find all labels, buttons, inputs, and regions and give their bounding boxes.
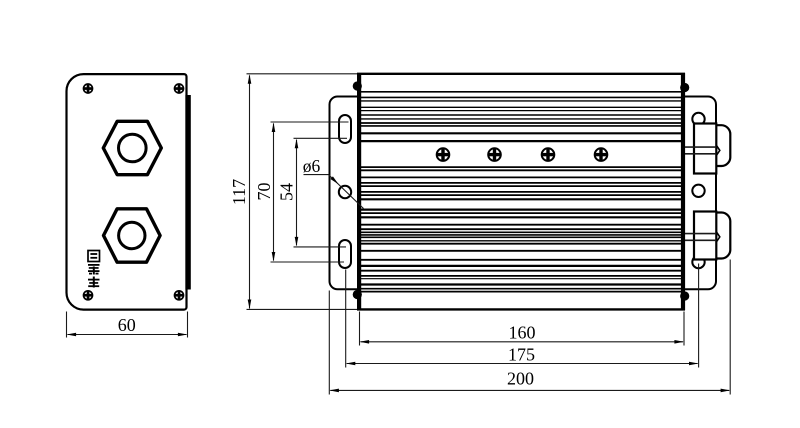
svg-text:175: 175 bbox=[508, 345, 535, 365]
main body top edge bbox=[357, 73, 685, 75]
left flange slot bottom bbox=[339, 240, 351, 268]
body corner screw dot top-left bbox=[353, 81, 362, 90]
dimension 175 line bbox=[347, 363, 698, 365]
body corner screw dot bottom-right bbox=[680, 291, 689, 300]
heatsink fins bbox=[359, 92, 683, 292]
dimension 117 extension lines bbox=[247, 73, 358, 75]
main body bottom edge bbox=[357, 308, 685, 310]
dimension 70 extension lines bbox=[271, 121, 349, 123]
diameter 6 leader underline bbox=[304, 174, 329, 176]
body screw 3 bbox=[541, 148, 554, 161]
dimension 60 extension lines bbox=[66, 312, 68, 338]
svg-text:54: 54 bbox=[276, 183, 296, 201]
left view corner screw top-right bbox=[174, 84, 183, 93]
right mounting flange bbox=[683, 97, 716, 290]
left flange slot top bbox=[339, 115, 351, 143]
cable gland side view top bbox=[683, 124, 730, 174]
body corner screw dot top-right bbox=[680, 83, 689, 92]
dimension 54 line bbox=[296, 140, 298, 246]
left mounting flange bbox=[330, 97, 360, 290]
diameter 6 leader line bbox=[329, 175, 364, 209]
dimension 117 line bbox=[249, 76, 251, 309]
cable gland side view bottom bbox=[683, 212, 730, 260]
body screw 2 bbox=[488, 148, 501, 161]
right flange hole middle bbox=[692, 185, 704, 197]
body screw 1 bbox=[436, 148, 449, 161]
left view corner screw bottom-right bbox=[174, 291, 183, 300]
body right edge band bbox=[681, 73, 685, 310]
left view fin edge strip bbox=[185, 95, 190, 290]
svg-text:ø6: ø6 bbox=[303, 156, 321, 176]
brand text glyphs bbox=[88, 251, 100, 288]
right flange hole bottom bbox=[692, 256, 704, 268]
body left edge band bbox=[357, 73, 361, 310]
right flange hole top bbox=[692, 113, 704, 125]
left view corner screw bottom-left bbox=[83, 291, 92, 300]
dimension 160 extension lines bbox=[359, 312, 361, 346]
dimension 54 extension lines bbox=[294, 137, 348, 139]
dimension 200 line bbox=[330, 389, 729, 391]
dimension 200 extension lines bbox=[328, 291, 330, 395]
svg-text:70: 70 bbox=[254, 183, 274, 201]
svg-text:160: 160 bbox=[509, 323, 536, 343]
left view corner screw top-left bbox=[83, 84, 92, 93]
dimension 70 line bbox=[273, 124, 275, 261]
left view enclosure outline bbox=[67, 74, 187, 310]
hex cable gland nut front view 1 bbox=[103, 121, 161, 174]
dimension 160 line bbox=[361, 341, 684, 343]
svg-text:200: 200 bbox=[507, 368, 534, 388]
svg-text:60: 60 bbox=[118, 315, 136, 335]
hex cable gland nut front view 2 bbox=[104, 209, 161, 262]
dimension 60 line bbox=[68, 334, 187, 336]
body screw 4 bbox=[594, 148, 607, 161]
body corner screw dot bottom-left bbox=[353, 290, 362, 299]
left flange hole (diam 6) bbox=[339, 186, 351, 198]
svg-text:117: 117 bbox=[229, 179, 249, 205]
dimension 175 extension lines bbox=[345, 270, 347, 368]
